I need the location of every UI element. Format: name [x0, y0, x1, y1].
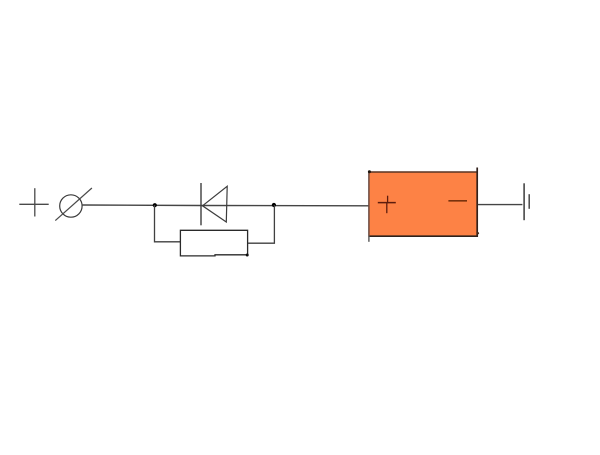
battery left edge: [368, 171, 370, 237]
battery right edge blob: [477, 232, 479, 234]
battery bottom edge: [369, 235, 478, 237]
battery right edge: [476, 168, 478, 238]
battery top edge: [369, 171, 477, 173]
battery plus label: [378, 196, 396, 214]
plus terminal symbol (cross): [19, 188, 48, 216]
wire main horizontal: [82, 204, 369, 207]
battery left edge lower tick: [368, 236, 370, 242]
battery minus label: [448, 200, 467, 202]
resistor R1 body: [180, 230, 247, 256]
wire right drop: [248, 205, 274, 243]
diode D1 triangle: [203, 186, 228, 222]
node A junction dot left: [153, 203, 157, 207]
slash through circle: [55, 188, 92, 221]
source lamp circle: [60, 195, 82, 217]
ground short bar: [528, 194, 530, 209]
ground tall bar: [523, 183, 525, 220]
resistor bottom-right corner dot: [246, 254, 249, 257]
battery top-left corner blob: [368, 170, 371, 173]
wire left drop: [155, 205, 181, 242]
battery box fill: [369, 172, 476, 236]
wire to ground: [478, 204, 523, 206]
diode D1 cathode bar: [200, 183, 202, 225]
node B junction dot right: [272, 203, 276, 207]
